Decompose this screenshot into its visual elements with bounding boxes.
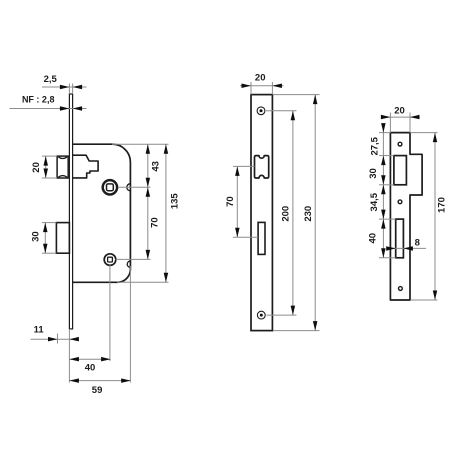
svg-text:43: 43 (150, 161, 161, 172)
svg-text:40: 40 (85, 362, 96, 373)
svg-text:135: 135 (169, 193, 180, 210)
svg-text:NF : 2,8: NF : 2,8 (22, 94, 55, 104)
svg-text:40: 40 (368, 233, 379, 244)
svg-text:200: 200 (281, 206, 292, 222)
svg-text:2,5: 2,5 (44, 74, 58, 85)
svg-text:70: 70 (225, 196, 236, 207)
svg-text:34,5: 34,5 (369, 192, 380, 211)
svg-text:20: 20 (255, 73, 266, 84)
svg-text:11: 11 (34, 325, 45, 336)
svg-text:30: 30 (368, 168, 379, 179)
svg-text:20: 20 (394, 106, 405, 117)
svg-text:59: 59 (92, 385, 103, 396)
svg-text:8: 8 (415, 238, 420, 249)
svg-text:27,5: 27,5 (369, 136, 380, 155)
svg-text:70: 70 (150, 217, 161, 228)
svg-text:20: 20 (31, 162, 42, 173)
svg-text:170: 170 (437, 197, 448, 213)
svg-text:30: 30 (31, 231, 42, 242)
svg-text:230: 230 (303, 206, 314, 222)
